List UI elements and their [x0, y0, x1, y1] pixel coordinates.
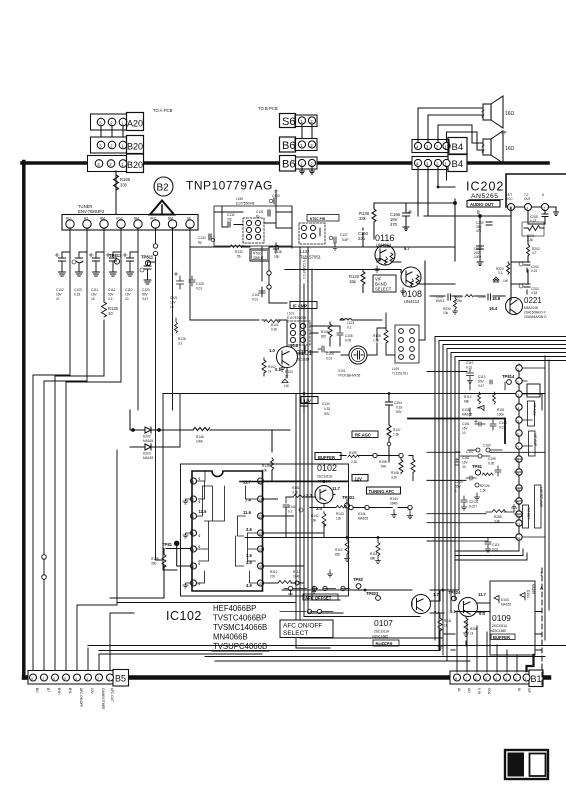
capacitor C209 25V 470 [476, 221, 492, 233]
svg-text:MA165: MA165 [358, 517, 368, 521]
svg-text:3.6: 3.6 [246, 527, 252, 532]
svg-text:m2SC1685: m2SC1685 [372, 635, 388, 639]
resistor R230 10k [443, 296, 458, 315]
capacitor C143 0.01 [490, 420, 507, 430]
svg-text:1: 1 [121, 143, 124, 148]
svg-text:0.95: 0.95 [488, 462, 494, 466]
svg-text:6: 6 [192, 565, 194, 569]
IC102 pin 1 [191, 477, 201, 484]
resistor R142 10k [311, 512, 326, 534]
svg-text:C110: C110 [466, 361, 474, 365]
B1 pin4 [494, 674, 501, 681]
svg-text:0.33: 0.33 [396, 406, 402, 410]
svg-text:10.2: 10.2 [290, 343, 299, 348]
crystal X130 NT6C 32MHZ [250, 249, 269, 261]
svg-text:AO: AO [467, 688, 471, 693]
svg-text:6: 6 [517, 432, 519, 436]
svg-text:TVSTC4066BP: TVSTC4066BP [213, 614, 266, 623]
diode D202 MA165 [137, 427, 159, 443]
svg-text:R101: R101 [271, 323, 279, 327]
svg-text:E1V7550048: E1V7550048 [236, 202, 255, 206]
capacitor C205 0.12 [530, 211, 548, 224]
svg-text:5.6P: 5.6P [342, 238, 349, 242]
diode D105 MA165 [462, 406, 484, 417]
wire top Q116 [374, 199, 455, 261]
resistor R229 103k [455, 295, 473, 304]
svg-text:R2126: R2126 [480, 484, 490, 488]
capacitor C104 0.01 [318, 346, 334, 361]
svg-text:R103: R103 [285, 370, 293, 374]
label VIF BAND SELECT box [373, 275, 396, 292]
svg-text:27p: 27p [227, 218, 233, 222]
svg-text:R199: R199 [349, 451, 357, 455]
IC102 pin 14 [243, 478, 264, 485]
connector B20 lower [88, 154, 144, 173]
svg-text:R146: R146 [196, 435, 204, 439]
IC102 pin 13 [245, 496, 264, 503]
svg-text:2SC3311A: 2SC3311A [492, 624, 508, 628]
ladder right verticals [542, 356, 549, 640]
svg-text:TP813: TP813 [109, 253, 122, 258]
svg-text:56: 56 [237, 255, 241, 259]
coil L103 0.2 [340, 319, 354, 330]
svg-text:16Ω: 16Ω [505, 146, 515, 152]
svg-text:0.01: 0.01 [196, 287, 202, 291]
tuner pin BT [83, 217, 91, 229]
pin 9 [516, 456, 522, 463]
resistor R158 330 [151, 549, 166, 570]
svg-text:0: 0 [199, 500, 201, 504]
wire vcc branch [511, 211, 545, 301]
pin 4 [516, 520, 522, 527]
svg-text:16V: 16V [462, 461, 469, 465]
transistor Q107 [412, 595, 431, 614]
svg-text:0.33: 0.33 [74, 293, 80, 297]
label Q101 2SC2188 [296, 348, 313, 362]
labels 11.7 0.1 0.4 [450, 592, 487, 616]
svg-text:3: 3 [192, 515, 194, 519]
wire pin1 B5 up [110, 613, 134, 672]
label 6.7 [404, 246, 410, 251]
connector B1 [450, 670, 543, 687]
capacitor C151 16V 10 [462, 420, 485, 435]
svg-text:C137: C137 [340, 233, 348, 237]
test point TP824 [448, 590, 461, 601]
resistor R126 3.2 [175, 318, 186, 346]
svg-text:16V: 16V [91, 293, 98, 297]
capacitor C221 EM13 [436, 294, 451, 303]
svg-text:R241: R241 [444, 619, 452, 623]
label TO A-PCB [153, 108, 173, 113]
svg-text:C2121: C2121 [469, 500, 479, 504]
svg-text:50V: 50V [396, 410, 403, 414]
resistor R268 3.8k [486, 510, 514, 524]
test point TP811 [141, 255, 154, 266]
svg-text:C134: C134 [322, 402, 330, 406]
svg-text:HEF4066BP: HEF4066BP [213, 604, 256, 613]
svg-text:B4: B4 [452, 142, 464, 153]
svg-text:C214: C214 [455, 480, 463, 484]
svg-text:2SC2188: 2SC2188 [296, 358, 310, 362]
svg-text:8: 8 [259, 582, 261, 586]
resistor R220 3.3 1W [493, 262, 510, 283]
svg-text:VOL: VOL [487, 688, 491, 695]
svg-text:1k: 1k [268, 370, 272, 374]
tuner pin AGC [116, 217, 125, 229]
ground under B6 pin2 [310, 167, 315, 174]
svg-text:0.01: 0.01 [326, 357, 332, 361]
svg-text:C101: C101 [252, 293, 260, 297]
svg-text:R151: R151 [497, 408, 505, 412]
svg-text:0109: 0109 [492, 613, 511, 623]
wire tuner BM down with R125 [103, 228, 105, 376]
label X101 TFCK3BHVK05 [338, 369, 361, 378]
bus line 4 [447, 348, 566, 350]
emitter resistor to 6.7 [390, 253, 401, 262]
connector S6 [280, 114, 318, 129]
fold labels [540, 572, 544, 592]
crystal X101 [349, 346, 367, 364]
hline y269.5 [285, 269, 401, 271]
svg-text:0107: 0107 [374, 618, 393, 628]
svg-text:1: 1 [540, 572, 543, 578]
svg-text:1W: 1W [503, 279, 508, 283]
svg-text:C123: C123 [142, 288, 150, 292]
svg-text:BUFFER: BUFFER [493, 635, 510, 640]
test point TP823 [366, 591, 380, 600]
svg-text:1: 1 [517, 367, 519, 371]
resistor R199 2.2k [340, 451, 403, 464]
capacitor C138 18p [274, 243, 282, 259]
svg-text:S6: S6 [282, 116, 295, 128]
svg-text:BYL: BYL [68, 688, 72, 694]
svg-text:0.2: 0.2 [347, 326, 352, 330]
label IF AMP box [290, 302, 317, 309]
pin 14 [516, 391, 522, 398]
bus stub links [427, 372, 545, 542]
label 12V box [301, 397, 318, 404]
capacitor C2121 0.027 [461, 496, 479, 510]
ground under B6 pin1 [300, 167, 305, 174]
wire tuner BM2 down [137, 228, 139, 410]
test point TP802 [353, 577, 364, 588]
wire b5 rows [88, 630, 566, 661]
IC202 top rail [506, 174, 566, 207]
transistor Q221 [506, 298, 523, 315]
label BUFFER box [315, 453, 341, 460]
B5 pin6 [52, 674, 59, 681]
capacitor C112 [106, 252, 121, 301]
wire pins rail [515, 207, 559, 216]
label L109 TL1151761 [392, 367, 408, 376]
B1 pin2 [514, 674, 521, 681]
B5 pin4 [74, 674, 81, 681]
resistor R111 100k [497, 408, 505, 417]
wire audio B line [424, 207, 511, 242]
svg-text:820: 820 [321, 335, 327, 339]
bundle bottom turns [296, 600, 443, 648]
svg-text:0: 0 [199, 562, 201, 566]
label L101 E1V7E0005B [287, 312, 306, 321]
svg-text:LIMITER AMP: LIMITER AMP [539, 487, 543, 507]
wire tuner SF down [173, 227, 191, 320]
svg-text:TO B·PCB: TO B·PCB [258, 106, 278, 111]
svg-text:0.027: 0.027 [469, 505, 477, 509]
IC102 pin 4 [183, 530, 201, 538]
svg-text:0: 0 [199, 545, 201, 549]
resistor R169 330 [114, 175, 131, 190]
svg-text:2SA1509A/O·Y: 2SA1509A/O·Y [524, 311, 547, 315]
connector B6 upper [280, 137, 318, 152]
resistor R130 56 [230, 245, 243, 259]
svg-text:NTSC P/B: NTSC P/B [310, 217, 326, 221]
svg-text:4: 4 [75, 677, 77, 681]
resistor R139 33k [359, 206, 376, 225]
svg-text:TL1151761: TL1151761 [392, 372, 408, 376]
B1 pin1 [523, 674, 530, 681]
wire diode row [130, 410, 290, 447]
svg-text:1.5k: 1.5k [393, 433, 399, 437]
label IC202 [466, 180, 504, 194]
svg-text:11.7: 11.7 [243, 480, 252, 485]
svg-text:0108: 0108 [402, 289, 422, 299]
label Q221 [524, 296, 547, 319]
svg-text:R158: R158 [151, 557, 159, 561]
wire tuner BT down [86, 228, 88, 381]
B5 pin2 [96, 674, 103, 681]
svg-text:16Ω: 16Ω [505, 111, 515, 117]
svg-text:10: 10 [258, 548, 262, 552]
capacitor C202 0.15 [519, 262, 539, 273]
svg-text:C134: C134 [198, 236, 206, 240]
thick sif wire [527, 655, 534, 671]
row y537.5 [245, 537, 516, 539]
svg-text:AN5265: AN5265 [471, 193, 499, 200]
jumper circles on AFC wire [153, 244, 157, 248]
svg-text:TVSMC14066B: TVSMC14066B [213, 623, 267, 632]
bus line 5 [451, 352, 566, 354]
resistor R141 3.3k [286, 486, 315, 498]
svg-text:1W: 1W [284, 384, 289, 388]
svg-text:12k: 12k [336, 517, 342, 521]
label SP [501, 130, 507, 135]
wire S6 to B6 [302, 124, 312, 138]
svg-text:82k: 82k [335, 553, 341, 557]
B5 pin5 [63, 674, 70, 681]
svg-text:3: 3 [99, 120, 102, 125]
svg-text:0.47: 0.47 [142, 297, 148, 301]
svg-text:3: 3 [526, 206, 528, 210]
resistor R148 3.2k [391, 456, 415, 481]
svg-text:3: 3 [99, 143, 102, 148]
B5 pin8 [30, 674, 37, 681]
speaker SP upper [482, 96, 503, 128]
capacitor C131 8p [256, 210, 270, 219]
block hwires [439, 372, 505, 453]
svg-text:14: 14 [258, 480, 262, 484]
svg-text:5: 5 [517, 419, 519, 423]
label part list [213, 604, 267, 651]
svg-text:D103: D103 [501, 598, 509, 602]
wire tuner BT to B5 pin7 [44, 381, 87, 672]
svg-text:R149: R149 [262, 464, 270, 468]
small resistor under TP81 [482, 473, 493, 476]
svg-text:D105: D105 [462, 408, 470, 412]
capacitor C101 0.01 [252, 287, 265, 302]
svg-text:BU: BU [35, 688, 39, 693]
registration black square [508, 753, 525, 777]
resistor R102 1k [262, 358, 276, 376]
svg-text:L109: L109 [392, 367, 399, 371]
svg-text:C138: C138 [274, 250, 282, 254]
svg-text:GAME/OTHER: GAME/OTHER [101, 688, 105, 710]
svg-text:B2: B2 [157, 183, 170, 194]
wire B4 pin1 to speaker2 [447, 132, 484, 150]
svg-text:14: 14 [516, 536, 520, 540]
diode D203 MA165 [137, 444, 159, 460]
thick 11.7 feed [240, 481, 347, 483]
pin 8 [516, 469, 522, 476]
svg-text:11.7: 11.7 [478, 592, 487, 597]
B5 pin1 [107, 674, 114, 681]
svg-text:BT: BT [46, 688, 50, 692]
svg-text:50V: 50V [142, 293, 149, 297]
svg-text:470: 470 [476, 229, 482, 233]
svg-text:MA165: MA165 [531, 584, 535, 594]
resistor R256 1k [464, 616, 478, 637]
svg-text:3: 3 [426, 145, 429, 150]
connector B20 upper [91, 136, 144, 154]
IC102 pin 8 [246, 580, 264, 588]
capacitor C125 0.01 [189, 276, 204, 291]
osc outer box [214, 206, 292, 246]
IC102 pin 5 [191, 545, 201, 552]
test point TP814 [502, 374, 515, 384]
resistor R146 100k [193, 428, 210, 444]
svg-text:1: 1 [192, 480, 194, 484]
capacitor C113 50V 0.47 [478, 375, 492, 388]
svg-text:2.2k: 2.2k [351, 460, 357, 464]
B1 pin5 [484, 674, 491, 681]
svg-text:D104: D104 [526, 590, 530, 598]
svg-text:R169: R169 [120, 177, 131, 182]
resistor R2126 1.5k [475, 483, 490, 500]
12V rail [163, 393, 545, 395]
IC102 pin 3 [191, 509, 208, 519]
svg-text:4: 4 [416, 145, 419, 150]
label RF AGC box [352, 431, 378, 438]
wires TP801 [110, 543, 296, 602]
wire tuner AGC down [120, 228, 122, 382]
svg-text:264B: 264B [390, 502, 397, 506]
svg-text:C143: C143 [499, 421, 507, 425]
svg-text:ENV-76803F2: ENV-76803F2 [78, 209, 105, 214]
bus line 3 [443, 344, 566, 346]
registration white square [530, 754, 546, 777]
resistor R143 12k [336, 505, 369, 520]
svg-text:0.33: 0.33 [324, 407, 330, 411]
pin 5 [516, 511, 522, 518]
svg-text:16V: 16V [125, 293, 132, 297]
capacitor C110 [123, 252, 138, 301]
svg-text:8p: 8p [198, 241, 202, 245]
svg-text:R113: R113 [293, 570, 301, 574]
label LIMITER AMP rotated [535, 485, 544, 528]
node B dot [479, 215, 482, 218]
label Q109 [490, 613, 511, 633]
wire AGC line to B5 pin5 [66, 382, 121, 672]
bus line 2 [439, 340, 566, 342]
svg-text:E1V7E0005B: E1V7E0005B [287, 316, 306, 320]
svg-text:R112: R112 [270, 570, 278, 574]
label Q107 [372, 618, 393, 639]
pin 3 [516, 534, 522, 541]
resistor R201 3.3k [522, 222, 544, 242]
svg-text:L150: L150 [236, 197, 243, 201]
test point TP801 dot [162, 541, 179, 547]
wire right low rows [443, 610, 542, 650]
capacitor C134 0.33 50V [301, 396, 331, 416]
IC102 outer box [181, 464, 349, 596]
svg-text:11: 11 [258, 532, 262, 536]
svg-text:540: 540 [381, 465, 387, 469]
svg-text:5: 5 [485, 677, 487, 681]
svg-text:3.2: 3.2 [178, 342, 183, 346]
svg-text:4: 4 [517, 406, 519, 410]
svg-text:2: 2 [97, 677, 99, 681]
svg-text:2SA564A/OB·O: 2SA564A/OB·O [524, 315, 547, 319]
test point TP801b [342, 495, 355, 508]
capacitor C103 [72, 252, 87, 297]
transistor Q104 [459, 598, 478, 617]
junction dot [437, 186, 440, 189]
ground under ic [312, 570, 333, 593]
svg-text:BT: BT [84, 217, 88, 221]
B1 pin3 [504, 674, 511, 681]
label 16.4 [489, 296, 501, 311]
svg-text:TP82: TP82 [353, 577, 364, 582]
svg-text:50V: 50V [455, 485, 462, 489]
svg-text:SELECT: SELECT [375, 287, 392, 292]
svg-text:16V: 16V [56, 293, 63, 297]
diode D104 MA165 [520, 584, 535, 600]
resistor R106 820 [321, 322, 332, 341]
svg-text:C104: C104 [326, 352, 334, 356]
svg-text:VCC: VCC [506, 197, 513, 201]
wire emitter row [310, 504, 408, 508]
svg-text:V IN: V IN [477, 688, 481, 695]
svg-text:15k: 15k [349, 279, 357, 284]
svg-text:C121: C121 [170, 296, 178, 300]
svg-text:104B: 104B [293, 575, 300, 579]
svg-text:16: 16 [91, 297, 95, 301]
capacitor C121 16V 10 [170, 272, 184, 309]
main hline y247 [190, 246, 425, 248]
svg-text:1: 1 [300, 143, 303, 148]
svg-text:C151: C151 [462, 422, 470, 426]
bottom area wires [359, 589, 491, 647]
IC102 pin 7 [183, 580, 201, 588]
capacitor C110 0.01 [466, 361, 474, 384]
svg-text:10: 10 [125, 297, 129, 301]
label Q108 UN4214 [402, 289, 422, 304]
svg-text:IC202: IC202 [466, 180, 504, 194]
capacitor C203 0.18 [519, 284, 539, 295]
svg-text:1k: 1k [444, 624, 448, 628]
svg-text:100k: 100k [497, 413, 504, 417]
resistor R133 15k [349, 270, 365, 293]
svg-text:0102: 0102 [317, 463, 337, 473]
